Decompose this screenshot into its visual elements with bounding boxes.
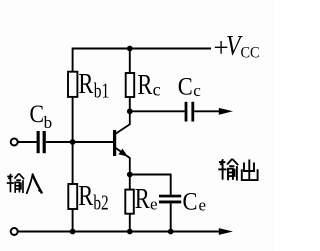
wire: emitter branch to bottom rail bbox=[129, 175, 131, 232]
wire: collector branch bbox=[129, 49, 131, 112]
resistor Rb2 bbox=[68, 184, 77, 209]
svg-text:C: C bbox=[183, 189, 198, 216]
capacitor Ce (emitter bypass) bbox=[159, 195, 181, 204]
transistor base bar bbox=[113, 130, 116, 156]
svg-text:R: R bbox=[78, 69, 93, 100]
svg-text:e: e bbox=[199, 196, 207, 215]
arrow: bottom rail end bbox=[219, 228, 233, 235]
resistor Re bbox=[125, 190, 134, 214]
svg-text:R: R bbox=[135, 184, 150, 215]
wire: +Vcc top rail bbox=[73, 48, 211, 50]
label Cb bbox=[30, 101, 53, 132]
wire: output lead bbox=[194, 110, 220, 112]
svg-text:R: R bbox=[78, 181, 93, 212]
svg-text:e: e bbox=[150, 195, 158, 214]
svg-text:b: b bbox=[44, 113, 53, 132]
wire: emitter node to bypass branch bbox=[130, 175, 171, 195]
transistor Q1 bbox=[115, 111, 130, 174]
label Cc bbox=[178, 73, 202, 100]
label Rb2 bbox=[78, 181, 109, 215]
label +VCC bbox=[214, 30, 260, 63]
svg-text:b1: b1 bbox=[94, 79, 110, 103]
wire: left bias branch bbox=[72, 48, 74, 232]
svg-text:c: c bbox=[153, 80, 161, 100]
wire: input to Cb bbox=[18, 141, 37, 143]
svg-text:CC: CC bbox=[241, 45, 260, 62]
node: top rail junction bbox=[127, 46, 133, 52]
wire: base wire bbox=[73, 141, 113, 143]
char 输 bbox=[7, 174, 24, 193]
label Re bbox=[135, 184, 158, 215]
svg-text:b2: b2 bbox=[93, 191, 108, 215]
wire: Cb to base junction bbox=[46, 141, 73, 143]
svg-text:R: R bbox=[137, 70, 152, 101]
resistor Rc bbox=[126, 73, 135, 97]
label Ce bbox=[183, 189, 207, 216]
input terminal (upper) bbox=[11, 139, 18, 146]
label 输出 (output) bbox=[218, 159, 257, 181]
node: collector junction bbox=[127, 108, 133, 114]
node: emitter junction bbox=[127, 172, 133, 178]
resistor Rb1 bbox=[68, 72, 77, 97]
svg-text:C: C bbox=[30, 101, 45, 128]
svg-text:C: C bbox=[178, 73, 193, 100]
wire: collector to output cap bbox=[130, 110, 185, 112]
label 输入 (input) bbox=[7, 173, 43, 194]
transistor emitter arrow bbox=[119, 149, 128, 157]
char 入 bbox=[27, 173, 43, 194]
transistor collector lead bbox=[116, 111, 130, 133]
node: base-bias junction bbox=[70, 139, 76, 145]
wire: bypass cap to bottom rail bbox=[170, 203, 172, 231]
node: bottom junction bias bbox=[70, 229, 76, 235]
node: bottom junction bypass bbox=[168, 229, 174, 235]
bottom terminal bbox=[11, 228, 18, 235]
label Rb1 bbox=[78, 69, 109, 103]
node: bottom junction emitter bbox=[127, 229, 133, 235]
svg-text:c: c bbox=[193, 81, 201, 100]
capacitor Cc (output coupling) bbox=[185, 102, 195, 122]
label Rc bbox=[137, 70, 160, 101]
transistor emitter lead bbox=[116, 148, 130, 175]
char 出 bbox=[242, 160, 258, 181]
wire: bottom rail bbox=[18, 231, 220, 233]
capacitor Cb bbox=[37, 131, 46, 153]
char 输 bbox=[218, 159, 238, 181]
arrow: output bbox=[219, 108, 233, 115]
